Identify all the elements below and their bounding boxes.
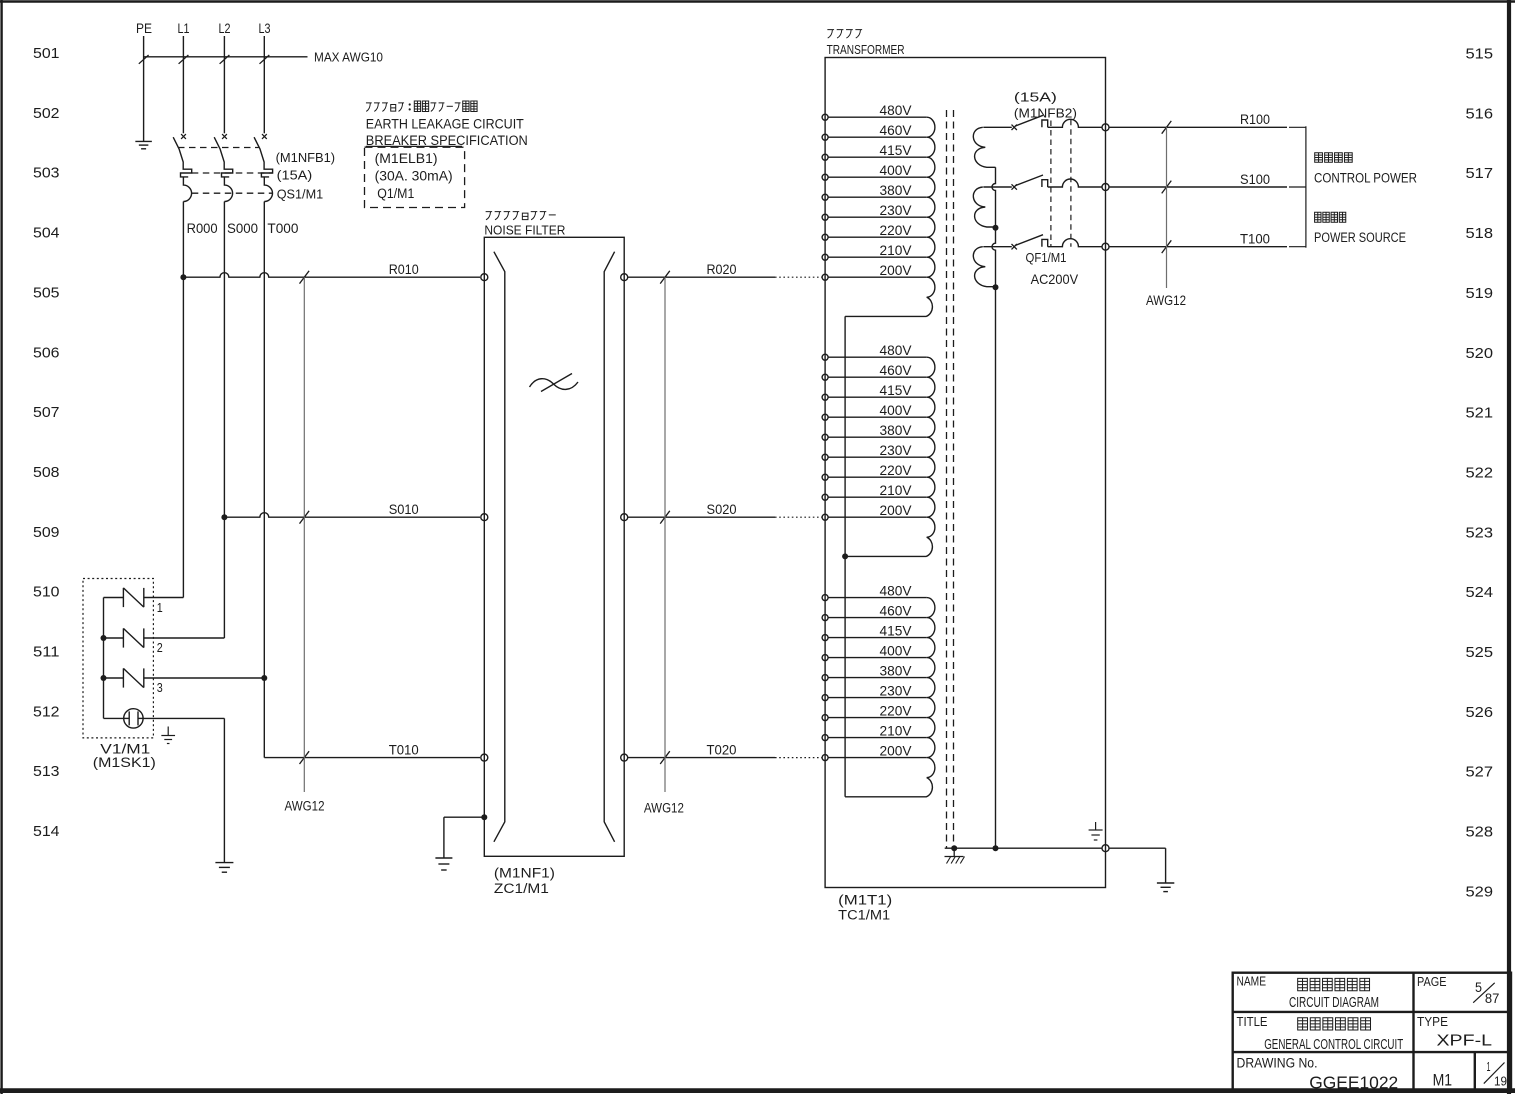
svg-text:(M1SK1): (M1SK1): [93, 755, 156, 770]
wire S100: [1109, 172, 1287, 193]
svg-text:512: 512: [33, 703, 60, 720]
label ZC1/M1: [494, 865, 555, 896]
svg-text:(M1NFB2): (M1NFB2): [1014, 105, 1077, 120]
svg-text:T100: T100: [1240, 232, 1270, 247]
svg-text:522: 522: [1466, 464, 1494, 481]
svg-text:504: 504: [33, 225, 60, 242]
noise filter terminals: [481, 274, 628, 761]
wire L2: [223, 36, 225, 133]
breaker QS1/M1 pole 1: [173, 134, 192, 201]
svg-text:518: 518: [1466, 225, 1494, 242]
svg-text:R000: R000: [187, 220, 218, 236]
svg-text:200V: 200V: [880, 262, 913, 278]
ground PE: [135, 141, 152, 148]
transformer core: [947, 110, 954, 848]
breaker QS1/M1 pole 3: [254, 134, 273, 201]
svg-text:AC200V: AC200V: [1031, 271, 1079, 287]
svg-text:(15A): (15A): [1014, 90, 1057, 105]
earth mark at absorber: [161, 727, 175, 744]
svg-text:220V: 220V: [880, 462, 913, 478]
tap 210V (primary 2): [822, 482, 927, 500]
svg-text:L3: L3: [259, 20, 271, 36]
label breaker QS1/M1: [276, 150, 336, 202]
node L3: [259, 20, 271, 36]
tap 400V (primary 1): [822, 162, 927, 180]
label power source: [1314, 212, 1406, 245]
pin 2: [157, 640, 163, 655]
wire filter earth lead: [444, 814, 487, 858]
svg-text:200V: 200V: [880, 502, 913, 518]
wire R000: [182, 202, 184, 598]
wire spec leader AWG12 (right): [1146, 127, 1186, 308]
svg-text:519: 519: [1466, 285, 1494, 302]
svg-text:(M1NFB1): (M1NFB1): [276, 150, 336, 165]
svg-text:GENERAL CONTROL CIRCUIT: GENERAL CONTROL CIRCUIT: [1264, 1037, 1403, 1053]
net R000: [187, 220, 218, 236]
tap 480V (primary 3): [822, 583, 927, 601]
wire T010: [264, 743, 480, 764]
node PE: [136, 20, 152, 36]
svg-text:1: 1: [157, 600, 163, 615]
svg-text:480V: 480V: [880, 102, 913, 118]
svg-text:525: 525: [1466, 644, 1494, 661]
tap 220V (primary 1): [822, 222, 927, 240]
tap 210V (primary 1): [822, 242, 927, 260]
breaker QS1/M1 pole 2: [214, 134, 233, 201]
tap 230V (primary 3): [822, 683, 927, 701]
svg-text:T000: T000: [267, 220, 298, 236]
svg-text:513: 513: [33, 763, 60, 780]
label noise filter: [484, 212, 565, 238]
tap 380V (primary 3): [822, 663, 927, 681]
svg-text:510: 510: [33, 584, 60, 601]
svg-text:L1: L1: [178, 20, 190, 36]
wire MAX AWG10 feeder: [139, 50, 383, 65]
wire secondary common: [992, 167, 995, 848]
svg-text:230V: 230V: [880, 202, 913, 218]
svg-text:NOISE FILTER: NOISE FILTER: [484, 224, 565, 238]
wire transformer earth bus: [945, 845, 1102, 851]
svg-text:220V: 220V: [880, 703, 913, 719]
svg-text:CIRCUIT DIAGRAM: CIRCUIT DIAGRAM: [1289, 995, 1379, 1011]
tap 415V (primary 1): [822, 142, 927, 160]
wire S010 with junction on S000: [221, 502, 480, 523]
svg-text:EARTH LEAKAGE CIRCUIT: EARTH LEAKAGE CIRCUIT: [366, 116, 524, 131]
wire neutral to ground: [1109, 848, 1166, 883]
svg-text:501: 501: [33, 45, 60, 62]
svg-text:S020: S020: [707, 502, 737, 517]
net S000: [227, 220, 258, 236]
tap 460V (primary 2): [822, 362, 927, 380]
svg-text:380V: 380V: [880, 663, 913, 679]
svg-text:210V: 210V: [880, 242, 913, 258]
svg-text:R020: R020: [707, 262, 737, 277]
svg-text:200V: 200V: [880, 743, 913, 759]
svg-text:400V: 400V: [880, 643, 913, 659]
note earth leakage breaker option: [366, 101, 528, 148]
svg-text:230V: 230V: [880, 683, 913, 699]
svg-text:S100: S100: [1240, 172, 1270, 187]
breaker QF1/M1 trip links: [1051, 120, 1071, 247]
label TC1/M1: [838, 893, 892, 923]
breaker QF1/M1 pole 2: [1012, 175, 1103, 190]
transformer TC1/M1 box: [825, 58, 1105, 888]
wire L1: [182, 36, 184, 133]
svg-text:380V: 380V: [880, 422, 913, 438]
svg-text:220V: 220V: [880, 222, 913, 238]
wire spec leader AWG12 (left): [285, 277, 325, 813]
tap 230V (primary 1): [822, 202, 927, 220]
tap 230V (primary 2): [822, 442, 927, 460]
primary winding 2: [845, 357, 935, 556]
svg-text:TYPE: TYPE: [1417, 1014, 1448, 1029]
tap 200V (primary 2): [822, 502, 927, 520]
tap 220V (primary 3): [822, 703, 927, 721]
svg-text:R100: R100: [1240, 112, 1270, 127]
tap 380V (primary 1): [822, 182, 927, 200]
svg-text:QF1/M1: QF1/M1: [1026, 251, 1067, 265]
svg-text:GGEE1022: GGEE1022: [1309, 1072, 1398, 1092]
ground (transformer neutral): [1157, 883, 1174, 892]
svg-text:517: 517: [1466, 165, 1494, 182]
wire arrester bus: [104, 598, 124, 719]
tap 200V (primary 1): [822, 262, 927, 280]
tap 415V (primary 3): [822, 623, 927, 641]
tap 210V (primary 3): [822, 723, 927, 741]
wire L3: [263, 36, 265, 133]
label V1/M1: [93, 741, 156, 770]
svg-text:AWG12: AWG12: [285, 799, 325, 814]
ground (absorber path): [215, 863, 233, 873]
net T000: [267, 220, 298, 236]
svg-text:PE: PE: [136, 20, 152, 36]
node L2: [219, 20, 231, 36]
svg-text:(M1T1): (M1T1): [838, 893, 892, 908]
svg-text:460V: 460V: [880, 362, 913, 378]
breaker QF1/M1 pole 1: [1012, 115, 1103, 130]
tap 480V (primary 1): [822, 102, 927, 120]
svg-text:210V: 210V: [880, 723, 913, 739]
svg-text:R010: R010: [389, 262, 419, 277]
svg-text:2: 2: [157, 640, 163, 655]
arrester element 2: [101, 628, 225, 647]
svg-text:1: 1: [1487, 1059, 1491, 1074]
tap 400V (primary 3): [822, 643, 927, 661]
svg-text:415V: 415V: [880, 623, 913, 639]
tap 415V (primary 2): [822, 382, 927, 400]
svg-text:BREAKER SPECIFICATION: BREAKER SPECIFICATION: [366, 133, 528, 148]
svg-text:POWER SOURCE: POWER SOURCE: [1314, 230, 1406, 245]
node L1: [178, 20, 190, 36]
arrester element 3: [101, 668, 268, 687]
svg-text:380V: 380V: [880, 182, 913, 198]
tap 460V (primary 1): [822, 122, 927, 140]
svg-text:3: 3: [157, 680, 163, 695]
label transformer: [827, 30, 905, 57]
svg-text:(M1ELB1): (M1ELB1): [375, 151, 438, 166]
svg-text:AWG12: AWG12: [1146, 293, 1186, 308]
svg-text:480V: 480V: [880, 583, 913, 599]
wire primary star point: [842, 316, 848, 796]
wire S020: [628, 502, 823, 523]
breaker QF1/M1 pole 3: [1012, 235, 1103, 250]
svg-text:5: 5: [1475, 979, 1482, 995]
svg-text:19: 19: [1494, 1074, 1507, 1089]
svg-text:T010: T010: [389, 743, 419, 758]
tap 220V (primary 2): [822, 462, 927, 480]
svg-text:MAX AWG10: MAX AWG10: [314, 50, 383, 65]
svg-text:CONTROL POWER: CONTROL POWER: [1314, 171, 1417, 186]
breaker QS1/M1 trip links: [178, 148, 273, 194]
secondary winding 2: [973, 187, 1011, 231]
svg-text:529: 529: [1466, 883, 1494, 900]
chassis ground (core): [945, 848, 965, 863]
svg-text:T020: T020: [707, 743, 737, 758]
secondary winding 1: [973, 127, 1011, 167]
secondary winding 3: [973, 247, 1011, 291]
wire S000: [223, 202, 225, 639]
svg-text:400V: 400V: [880, 162, 913, 178]
svg-text:ZC1/M1: ZC1/M1: [494, 881, 549, 896]
svg-text:Q1/M1: Q1/M1: [377, 186, 414, 201]
wire T020: [628, 743, 823, 764]
title block: [1233, 973, 1511, 1093]
svg-text:M1: M1: [1433, 1072, 1453, 1090]
gas discharge tube: [124, 709, 143, 728]
pin 3: [157, 680, 163, 695]
svg-text:(M1NF1): (M1NF1): [494, 865, 555, 880]
svg-text:(15A): (15A): [277, 168, 313, 183]
svg-text:TRANSFORMER: TRANSFORMER: [827, 43, 905, 57]
svg-text:XPF-L: XPF-L: [1437, 1032, 1493, 1049]
tap 460V (primary 3): [822, 603, 927, 621]
svg-text:503: 503: [33, 165, 60, 182]
pin 1: [157, 600, 163, 615]
transformer output terminals: [1102, 124, 1109, 852]
svg-text:524: 524: [1466, 584, 1494, 601]
wire gas tube to ground: [143, 718, 224, 862]
svg-text:460V: 460V: [880, 603, 913, 619]
svg-text:PAGE: PAGE: [1417, 974, 1447, 989]
breaker Q1/M1 spec box: [365, 147, 465, 207]
svg-text:S010: S010: [389, 502, 419, 517]
svg-text:TITLE: TITLE: [1237, 1014, 1268, 1029]
tap 400V (primary 2): [822, 402, 927, 420]
svg-text:511: 511: [33, 644, 60, 661]
wire PE: [143, 36, 145, 141]
svg-text:NAME: NAME: [1237, 974, 1267, 989]
svg-text:TC1/M1: TC1/M1: [838, 908, 890, 923]
surge absorber V1/M1 (M1SK1) enclosure: [83, 579, 153, 738]
svg-text:506: 506: [33, 344, 60, 361]
svg-text:415V: 415V: [880, 142, 913, 158]
svg-text:400V: 400V: [880, 402, 913, 418]
wire R100: [1109, 112, 1287, 134]
tap 480V (primary 2): [822, 342, 927, 360]
svg-text:S000: S000: [227, 220, 258, 236]
svg-text:L2: L2: [219, 20, 231, 36]
label control power: [1314, 153, 1417, 186]
svg-text:520: 520: [1466, 345, 1494, 362]
label breaker QF1/M1: [1014, 90, 1079, 288]
tap 200V (primary 3): [822, 743, 927, 761]
svg-text:415V: 415V: [880, 382, 913, 398]
svg-text:521: 521: [1466, 405, 1494, 422]
wire spec leader AWG12 (centre): [644, 277, 684, 815]
svg-text:516: 516: [1466, 105, 1494, 122]
svg-text:480V: 480V: [880, 342, 913, 358]
svg-text:502: 502: [33, 105, 60, 122]
output bracket: [1289, 126, 1306, 247]
primary winding 1: [845, 117, 935, 316]
svg-text:DRAWING No.: DRAWING No.: [1237, 1055, 1318, 1070]
svg-text:230V: 230V: [880, 442, 913, 458]
svg-text:AWG12: AWG12: [644, 801, 684, 816]
svg-text:528: 528: [1466, 824, 1494, 841]
wire T100: [1109, 232, 1287, 253]
arrester element 1: [104, 588, 184, 607]
svg-text:87: 87: [1485, 990, 1500, 1006]
svg-text:526: 526: [1466, 704, 1494, 721]
svg-text:QS1/M1: QS1/M1: [277, 187, 324, 202]
tap 380V (primary 2): [822, 422, 927, 440]
svg-text:210V: 210V: [880, 482, 913, 498]
svg-text:514: 514: [33, 823, 60, 840]
wire T000: [263, 202, 265, 758]
wire R010 with junction on R000: [180, 262, 480, 283]
svg-text:527: 527: [1466, 764, 1494, 781]
svg-text:523: 523: [1466, 524, 1494, 541]
wire R020: [628, 262, 823, 283]
svg-text:507: 507: [33, 404, 60, 421]
svg-text:508: 508: [33, 464, 60, 481]
svg-text:515: 515: [1466, 46, 1494, 63]
svg-text:(30A. 30mA): (30A. 30mA): [375, 169, 453, 184]
svg-text:509: 509: [33, 524, 60, 541]
svg-text:505: 505: [33, 284, 60, 301]
earth mark at transformer terminal: [1089, 822, 1103, 840]
ground (noise filter): [435, 858, 452, 870]
noise filter ZC1/M1 box: [484, 237, 624, 856]
svg-text:460V: 460V: [880, 122, 913, 138]
primary winding 3: [845, 598, 935, 797]
